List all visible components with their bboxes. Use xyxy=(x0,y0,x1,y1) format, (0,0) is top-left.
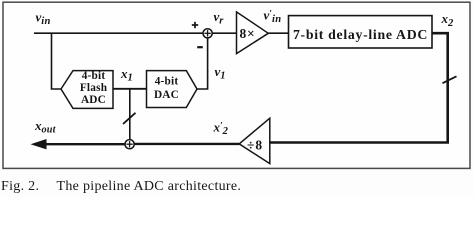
DAC U5 4-bit xyxy=(147,71,198,108)
wire DAC U5 to summer S1 minus input xyxy=(197,38,208,89)
svg-text:7-bit delay-line ADC: 7-bit delay-line ADC xyxy=(293,27,428,42)
svg-text:Flash: Flash xyxy=(80,82,108,94)
amplifier U1 8x xyxy=(237,12,269,54)
bus slash on x2 wire xyxy=(443,76,457,83)
summer S1 xyxy=(203,29,212,38)
summer S2 xyxy=(125,140,134,149)
wire vin branch to flash ADC xyxy=(52,33,62,89)
svg-text:÷8: ÷8 xyxy=(247,137,263,152)
svg-text:DAC: DAC xyxy=(154,89,179,101)
bus slash on x1 wire xyxy=(123,113,136,124)
svg-text:8×: 8× xyxy=(240,26,256,41)
wire summer S1 to amplifier U1 xyxy=(212,32,236,34)
summer S1 minus sign label xyxy=(197,46,203,48)
wire amplifier U1 to ADC U2 xyxy=(268,32,288,34)
svg-text:4-bit: 4-bit xyxy=(155,76,179,88)
wire ADC U2 output feedback to divider U3 xyxy=(270,33,448,142)
flash ADC U4 4-bit xyxy=(61,70,113,108)
wire node x1 to summer S2 xyxy=(129,89,131,140)
divider U3 divide-by-8 xyxy=(239,118,270,163)
svg-text:ADC: ADC xyxy=(81,94,106,106)
wire summer S2 to xout arrow xyxy=(31,139,126,149)
svg-text:4-bit: 4-bit xyxy=(82,70,106,82)
summer S1 plus sign label xyxy=(192,22,198,28)
ADC U2 7-bit delay-line xyxy=(289,16,433,48)
wire divider U3 to summer S2 xyxy=(134,143,239,145)
wire flash ADC U4 to DAC U5 xyxy=(113,88,147,90)
wire vin to summer S1 xyxy=(34,32,203,34)
svg-text:Fig. 2.The pipeline ADC archit: Fig. 2.The pipeline ADC architecture. xyxy=(1,179,241,194)
